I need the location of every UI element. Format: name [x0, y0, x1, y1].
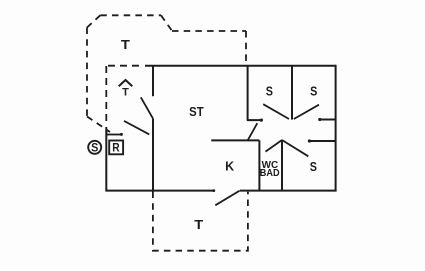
svg-text:S: S: [310, 159, 317, 174]
wall S/S: [291, 66, 293, 120]
svg-text:T: T: [122, 86, 129, 98]
door sill symbol: [106, 131, 123, 137]
svg-text:ST: ST: [189, 104, 204, 119]
wall bottom (building, west of terrace door): [105, 190, 213, 192]
svg-text:T: T: [194, 217, 203, 232]
door leaf entry hall: [141, 97, 153, 118]
svg-text:BAD: BAD: [260, 168, 280, 179]
door leaf S top-left: [263, 104, 289, 119]
wall top dashed (porch): [108, 65, 141, 67]
wall left dashed (porch): [105, 66, 107, 126]
svg-text:S: S: [91, 141, 98, 155]
wall top (building): [145, 65, 336, 67]
entrance arrow chevron: [119, 80, 133, 86]
legend circle S: [88, 141, 101, 154]
wall hall/ST upper: [152, 66, 154, 97]
svg-text:T: T: [121, 37, 130, 52]
wall right (building): [335, 65, 337, 191]
wall stub S right top: [320, 119, 336, 121]
terrace T (top, dashed outline): [87, 15, 246, 132]
svg-text:S: S: [266, 83, 273, 98]
wall left (building, solid): [105, 127, 107, 191]
wall WC west: [258, 140, 260, 190]
door leaf entry room: [124, 121, 149, 134]
wall end dots: [212, 118, 321, 192]
svg-text:R: R: [112, 141, 120, 155]
wall stub S right mid: [310, 140, 336, 142]
door leaf ST to hall: [248, 123, 257, 140]
svg-text:S: S: [310, 83, 317, 98]
door leaf S bottom: [282, 140, 308, 156]
door leaf terrace: [215, 191, 239, 206]
door leaf WC: [266, 140, 283, 152]
wall bottom (building, east of terrace door): [240, 190, 337, 192]
terrace T (bottom, dashed outline): [153, 192, 248, 251]
wall stub hall north: [248, 119, 262, 121]
wall K north: [211, 139, 259, 141]
legend box R: [109, 141, 123, 155]
wall S/ST: [247, 66, 249, 120]
door leaf S top-right: [294, 105, 319, 119]
wall hall/ST lower: [152, 119, 154, 191]
wall WC east: [281, 140, 283, 191]
svg-text:K: K: [225, 158, 235, 173]
